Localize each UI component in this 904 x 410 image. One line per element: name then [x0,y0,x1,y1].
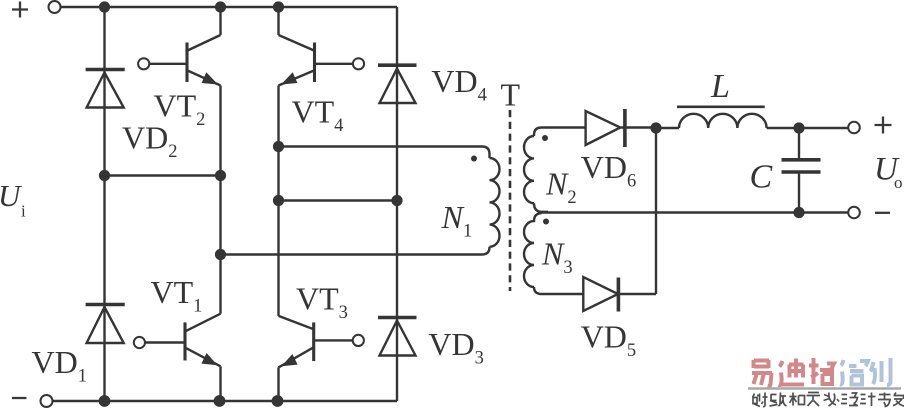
svg-text:VD2: VD2 [122,119,177,162]
transistor VT2 [138,35,220,86]
junction right mid [391,195,402,206]
svg-text:L: L [710,68,730,105]
wire N2 top lead [534,128,587,137]
transformer secondary N3 winding [524,213,542,287]
transformer primary N1 winding [490,158,500,247]
wire bottom rail [53,400,398,402]
transistor VT4 [279,35,365,86]
wire left vertical (VD1/VD2 branch) [103,7,105,401]
wire primary top lead (leg2 midpoint to N1) [279,147,490,159]
polarity dot N2 [542,135,548,141]
junction leg1 primary tap [215,249,226,260]
transformer secondary N2 winding [524,136,534,203]
junction VD6-L node [650,122,661,133]
junction bottom rail x104 [99,395,111,407]
svg-text:N3: N3 [541,236,573,279]
inductor L [656,107,849,128]
transistor VT1 [134,314,221,367]
junction bottom rail x219 [214,395,226,407]
diode VD4 [378,65,417,103]
svg-text:VD6: VD6 [581,149,636,192]
svg-text:VD3: VD3 [428,326,483,369]
terminal input - [41,395,53,407]
diode VD2 [86,70,125,108]
diode VD3 [378,318,417,356]
wire leg2 top (VT4 collector stub) [277,7,279,35]
svg-text:VT4: VT4 [292,93,344,135]
wire right vertical (VD3/VD4 branch) [396,7,398,401]
wire primary bottom lead (N1 to leg1 midpoint) [221,247,490,255]
wire leg2 middle (VT4 emitter to VT3 collector) [277,86,279,316]
wire leg1 top (VT2 collector stub) [219,7,221,35]
transistor VT3 [279,316,364,368]
terminal output - [848,207,860,219]
transformer core (dashed) [509,110,512,291]
junction leg2 primary tap [273,141,284,152]
wire leg1 bottom (VT1 emitter stub) [219,366,221,401]
junction C return node [793,207,804,218]
diode VD5 [583,277,656,312]
svg-text:VD1: VD1 [32,344,87,387]
wire VD6 cathode to VD5 cathode vertical [655,128,657,294]
polarity mark input - [12,397,27,399]
polarity mark output - [875,212,890,214]
svg-text:o: o [894,173,903,192]
junction top rail x104 [99,1,110,12]
terminal input + [49,1,61,13]
junction left mid [99,170,110,181]
diode VD1 [86,305,125,344]
capacitor C [782,128,821,213]
polarity mark input + [12,2,28,18]
diode VD6 [586,109,656,147]
junction top rail x278 [273,1,284,12]
svg-text:N2: N2 [545,166,577,209]
svg-text:VD4: VD4 [431,63,486,106]
junction L-C output node [793,122,804,133]
watermark logo yiditop training [752,358,891,386]
wire node B (leg2 midpoint to VD3/VD4 midpoint) [279,199,398,201]
junction top rail x220 [215,1,226,12]
wire leg2 bottom (VT3 emitter stub) [277,367,279,401]
wire output return rail [538,211,849,213]
wire leg1 middle (VT2 emitter to VT1 collector) [219,86,221,314]
watermark subtitle rf antenna design experts [753,393,904,407]
wire N3 bottom lead [534,287,583,294]
svg-text:VT1: VT1 [151,274,203,317]
wire centre tap lead [534,203,548,212]
junction leg2 clamp tap [273,195,284,206]
svg-text:T: T [501,77,521,113]
polarity dot N1 [471,156,477,162]
terminal output + [848,122,860,134]
wire top rail [61,6,398,8]
svg-text:U: U [0,178,23,213]
wire node A (leg1 midpoint to VD1/VD2 midpoint) [105,174,221,176]
polarity dot N3 [543,219,549,225]
svg-text:C: C [750,159,773,196]
svg-text:VT3: VT3 [296,281,348,324]
polarity mark output + [875,117,892,134]
svg-text:N1: N1 [441,199,473,242]
svg-text:i: i [21,202,26,221]
svg-text:VD5: VD5 [581,319,636,362]
junction leg1 mid [215,170,226,181]
watermark underline [748,387,901,390]
junction bottom rail x277 [272,395,284,407]
